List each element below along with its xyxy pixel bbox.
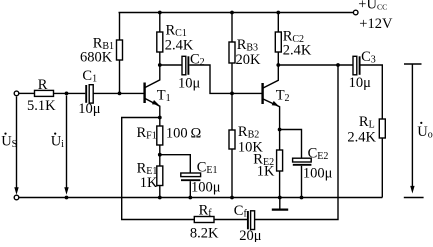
capacitor CE1 [181,173,201,198]
terminal +Ucc [353,10,358,15]
junction rail-RC1 [158,11,162,15]
wire T2 emitter node to CE2 [280,130,302,159]
svg-text:100 Ω: 100 Ω [166,126,202,142]
resistor RE2 [277,130,283,198]
resistor RF1 [157,118,163,155]
capacitor C1 [86,85,93,103]
resistor RL [379,119,385,198]
junction T2 collector node [276,63,280,67]
svg-text:10μ: 10μ [178,76,201,92]
wire collector node to C2 [160,64,182,66]
wire feedback left [122,118,195,220]
wire feedback right [255,65,338,220]
junction bus-RB2 [230,196,234,200]
label Us [1,133,17,151]
svg-text:+UCC: +UCC [358,0,387,13]
source arrow Us [14,97,18,195]
svg-text:CE1: CE1 [197,160,218,177]
wire C1 to T1 base [93,92,143,94]
label Uo [417,122,432,141]
svg-text:8.2K: 8.2K [190,226,219,242]
junction bus-Ui [65,196,69,200]
resistor RB3 [229,13,235,94]
svg-text:20μ: 20μ [239,228,262,242]
resistor RC1 [157,13,163,66]
junction RB2 node [230,92,234,96]
wire top power rail [119,12,354,14]
transistor T1 [145,65,160,118]
svg-text:2.4K: 2.4K [347,130,376,146]
junction RF1-RE1 node [158,153,162,157]
junction base node T1 [118,92,122,96]
svg-text:T2: T2 [276,88,290,105]
svg-text:Cf: Cf [234,203,248,220]
junction bus-RE2 [278,196,282,200]
svg-text:100μ: 100μ [303,166,333,182]
svg-text:US: US [1,134,17,151]
svg-text:RF1: RF1 [137,125,157,142]
wire RF1 node to CE1 [160,155,191,173]
svg-text:20K: 20K [236,52,262,68]
output arrow Uo [404,64,424,198]
resistor RE1 [157,155,163,198]
junction bus-CE2 [300,196,304,200]
svg-text:100μ: 100μ [191,180,221,196]
resistor RC2 [275,13,281,66]
wire Rf to Cf [214,219,247,221]
junction feedback tap [336,63,340,67]
wire C3 to RL [361,65,383,119]
resistor R [35,90,54,96]
svg-text:T1: T1 [157,88,171,105]
label Ui [51,133,64,151]
svg-text:10μ: 10μ [78,101,101,117]
wire output row to C3 [278,64,353,66]
svg-text:C3: C3 [361,49,376,66]
svg-text:Rf: Rf [199,203,213,220]
junction rail-RC2 [276,11,280,15]
junction bus-RE1 [158,196,162,200]
junction T2 emitter node [278,128,282,132]
wire R to C1 [54,92,86,94]
capacitor CE2 [293,158,312,197]
resistor Rf [194,217,214,223]
capacitor C3 [353,56,360,75]
svg-text:Uo: Uo [417,124,432,141]
capacitor Cf [248,211,255,230]
wire ground bus [19,197,383,199]
junction bus-CE1 [188,196,192,200]
svg-text:RL: RL [359,114,375,131]
capacitor C2 [182,56,188,75]
svg-text:C1: C1 [82,68,97,85]
junction node Ui [65,92,69,96]
junction T1 collector node [158,63,162,67]
svg-text:1K: 1K [257,164,275,180]
svg-text:680K: 680K [80,50,113,66]
wire input to R [19,92,35,94]
svg-text:10μ: 10μ [349,75,372,91]
svg-text:5.1K: 5.1K [27,98,56,114]
resistor RB2 [229,93,235,197]
svg-text:CE2: CE2 [308,146,329,163]
terminal input top [14,91,19,96]
junction T1 emitter node [158,116,162,120]
input arrow Ui [64,96,68,195]
svg-text:R: R [38,77,48,93]
svg-text:2.4K: 2.4K [283,43,312,59]
transistor T2 [263,65,280,130]
ground [272,198,288,210]
svg-text:+12V: +12V [359,16,393,32]
svg-text:RB2: RB2 [238,124,259,141]
svg-text:Ui: Ui [51,134,64,151]
svg-text:1K: 1K [140,175,158,191]
resistor RB1 [117,13,123,94]
terminal input bottom [14,195,19,200]
junction rail-RB3 [230,11,234,15]
wire C2 to T2 base [189,65,261,93]
